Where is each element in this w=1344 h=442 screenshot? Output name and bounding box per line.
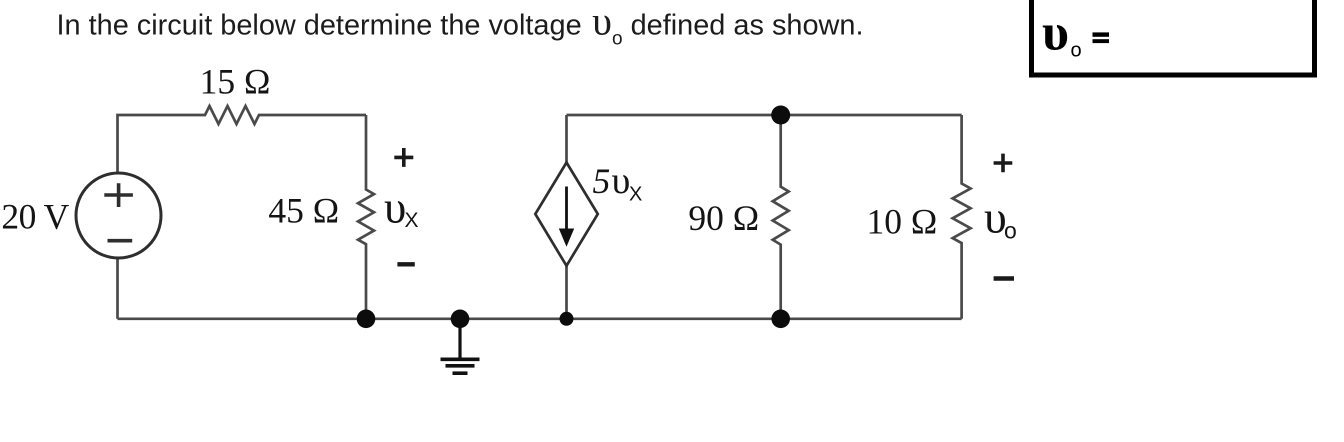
svg-text:10 Ω: 10 Ω: [867, 202, 938, 242]
svg-text:o: o: [1004, 218, 1017, 244]
svg-text:15 Ω: 15 Ω: [200, 62, 271, 102]
svg-text:o: o: [1071, 40, 1082, 62]
svg-text:45 Ω: 45 Ω: [268, 191, 339, 231]
svg-text:υ: υ: [612, 160, 631, 202]
svg-text:X: X: [629, 184, 642, 206]
svg-text:90 Ω: 90 Ω: [688, 198, 759, 238]
svg-text:υ: υ: [384, 182, 406, 232]
svg-text:In the circuit below determine: In the circuit below determine the volta…: [57, 0, 864, 49]
svg-text:5: 5: [593, 161, 611, 201]
svg-text:20 V: 20 V: [1, 197, 69, 237]
svg-text:X: X: [405, 209, 419, 232]
svg-text:υ: υ: [1042, 5, 1069, 62]
